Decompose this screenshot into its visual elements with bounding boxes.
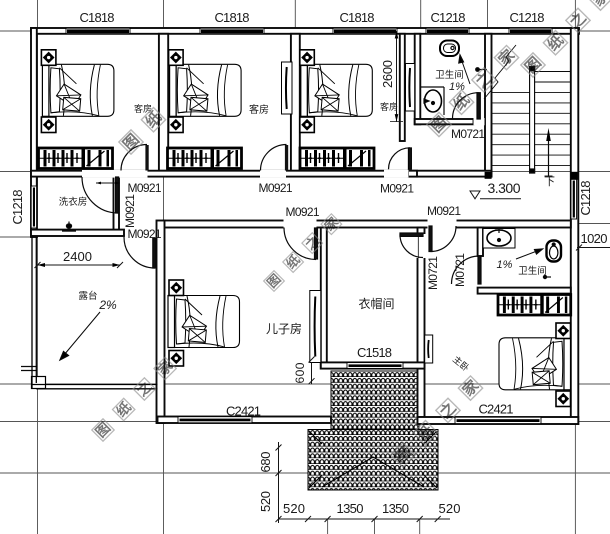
svg-text:600: 600 bbox=[293, 362, 307, 383]
svg-text:M0921: M0921 bbox=[128, 227, 162, 241]
svg-text:680: 680 bbox=[258, 452, 273, 473]
svg-text:520: 520 bbox=[439, 501, 461, 516]
svg-text:2%: 2% bbox=[98, 298, 117, 312]
svg-text:下: 下 bbox=[544, 176, 555, 188]
svg-text:C1818: C1818 bbox=[80, 10, 115, 25]
svg-text:C1218: C1218 bbox=[578, 181, 593, 216]
svg-text:C2421: C2421 bbox=[479, 402, 514, 417]
svg-text:1020: 1020 bbox=[581, 231, 608, 246]
svg-text:卫生间: 卫生间 bbox=[518, 265, 547, 277]
svg-text:C1218: C1218 bbox=[510, 10, 545, 25]
svg-text:M0921: M0921 bbox=[286, 205, 320, 219]
svg-text:M0721: M0721 bbox=[451, 127, 485, 141]
svg-text:M0721: M0721 bbox=[453, 253, 467, 287]
svg-text:C1218: C1218 bbox=[10, 190, 25, 225]
svg-text:C2421: C2421 bbox=[226, 404, 261, 419]
svg-text:露台: 露台 bbox=[78, 290, 97, 302]
svg-text:C1518: C1518 bbox=[357, 345, 392, 360]
svg-text:2400: 2400 bbox=[63, 249, 92, 264]
svg-text:M0921: M0921 bbox=[128, 181, 162, 195]
svg-text:1350: 1350 bbox=[337, 501, 364, 516]
svg-text:洗衣房: 洗衣房 bbox=[59, 196, 88, 208]
svg-text:520: 520 bbox=[283, 501, 305, 516]
svg-text:3.300: 3.300 bbox=[488, 180, 521, 196]
svg-text:客房: 客房 bbox=[380, 101, 398, 112]
svg-text:客房: 客房 bbox=[249, 103, 269, 116]
svg-text:C1818: C1818 bbox=[340, 10, 375, 25]
svg-text:衣帽间: 衣帽间 bbox=[358, 296, 394, 311]
svg-text:儿子房: 儿子房 bbox=[266, 321, 302, 336]
svg-text:卫生间: 卫生间 bbox=[435, 69, 464, 81]
svg-text:C1218: C1218 bbox=[431, 10, 466, 25]
svg-text:520: 520 bbox=[258, 491, 273, 512]
svg-text:M0921: M0921 bbox=[259, 181, 293, 195]
svg-text:M0721: M0721 bbox=[426, 256, 440, 290]
svg-text:1350: 1350 bbox=[382, 501, 409, 516]
svg-text:M0921: M0921 bbox=[123, 194, 137, 228]
svg-text:M0921: M0921 bbox=[427, 204, 461, 218]
svg-text:2600: 2600 bbox=[380, 60, 395, 88]
svg-text:1%: 1% bbox=[497, 259, 513, 271]
svg-text:M0921: M0921 bbox=[380, 182, 414, 196]
svg-text:C1818: C1818 bbox=[215, 10, 250, 25]
